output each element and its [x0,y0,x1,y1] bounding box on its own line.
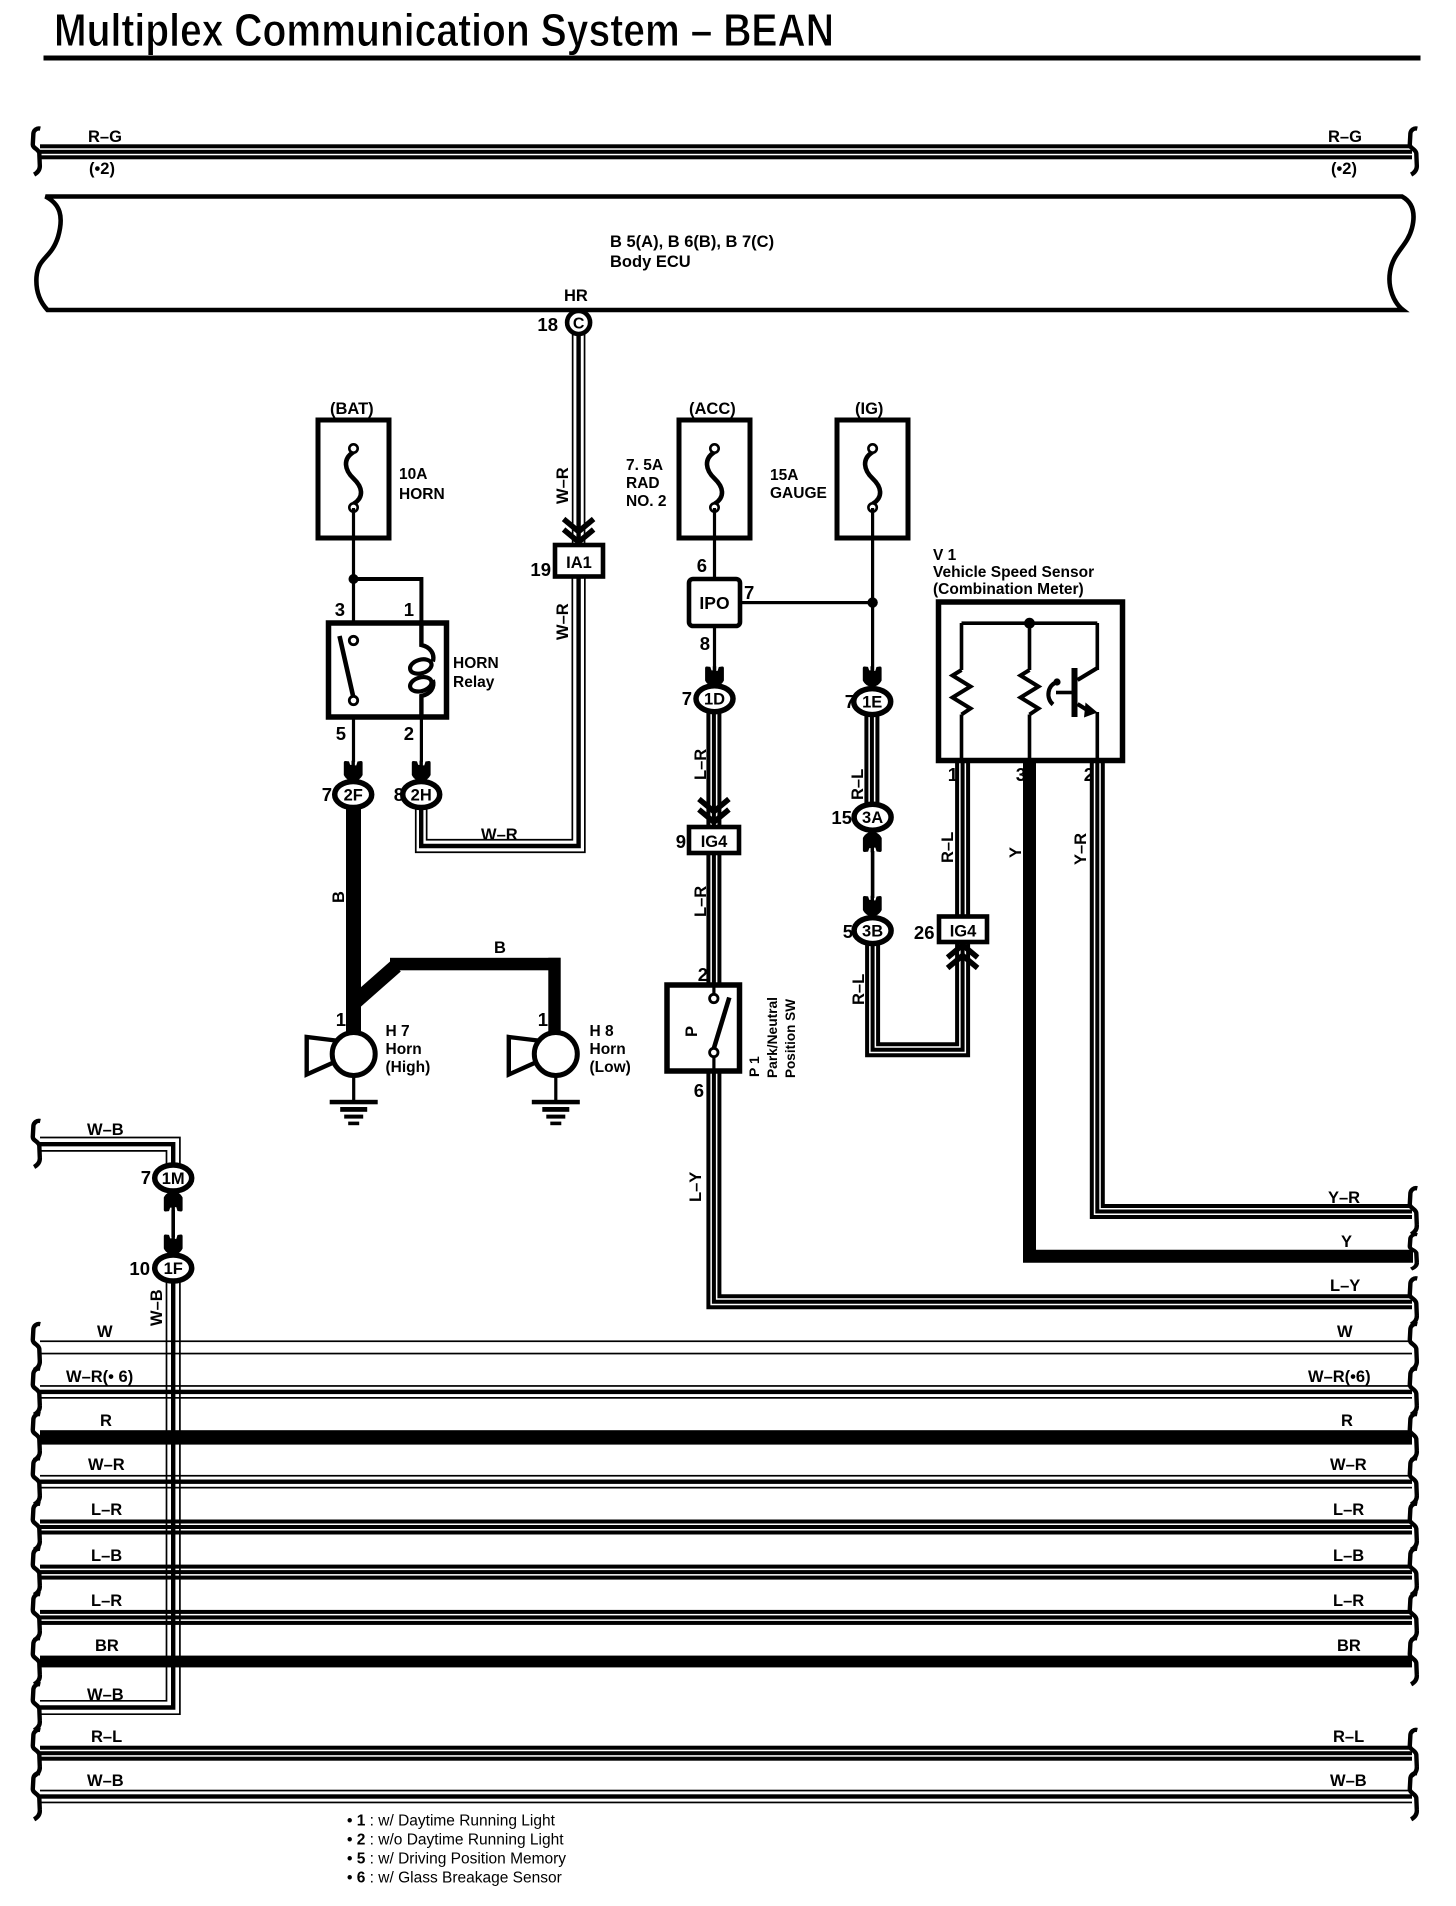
svg-text:R–L: R–L [850,974,868,1005]
wire relay pin 2 down [420,717,423,762]
svg-text:B: B [494,939,506,957]
svg-text:Horn: Horn [590,1041,626,1058]
svg-text:7: 7 [682,688,692,709]
svg-text:L–R: L–R [1333,1592,1364,1610]
wire W-R bus [40,1475,1412,1489]
wire internal top bus (V1) [962,621,1098,625]
svg-text:B: B [330,891,348,903]
svg-text:1F: 1F [164,1260,183,1278]
svg-text:6: 6 [694,1080,704,1101]
svg-text:5: 5 [336,723,346,744]
svg-text:W–B: W–B [87,1121,124,1139]
wire IPO down to 1D [713,626,716,672]
wire L-B bus [40,1565,1412,1580]
svg-text:7: 7 [322,784,332,805]
svg-text:26: 26 [914,922,935,943]
arrow up into 3A [863,832,882,853]
Body ECU band [36,197,1413,311]
wire R-L from 3B down, right, and up to V1 pin 1 [867,760,968,1055]
svg-text:3A: 3A [862,809,883,827]
svg-text:W–B: W–B [87,1772,124,1790]
wire break symbol right (R) [1410,1414,1418,1460]
svg-text:10A: 10A [399,466,427,483]
svg-text:Y–R: Y–R [1328,1189,1360,1207]
svg-text:1: 1 [404,599,414,620]
svg-text:HR: HR [564,287,588,305]
wire H8 to ground [554,1076,557,1101]
fuse 7.5A RAD NO.2 (ACC) [679,420,750,538]
svg-text:1: 1 [538,1009,548,1030]
wire W bus [40,1340,1412,1342]
wire W-B from edge to connector 1M [40,1138,180,1166]
wire Y-R from V1 pin 2 down and right to edge [1092,760,1412,1217]
svg-text:2: 2 [404,723,414,744]
wire break symbol left (L-R) [33,1504,41,1550]
fuse 15A GAUGE (IG) [837,420,908,538]
ground (H8) [532,1100,580,1125]
wire B branch down to Horn Low [548,958,560,1032]
svg-text:1E: 1E [862,694,882,712]
svg-text:1: 1 [948,764,958,785]
wire L-R from IG4 to P1 pin 2 [706,851,721,985]
svg-text:BR: BR [95,1637,119,1655]
svg-text:P 1: P 1 [746,1056,762,1077]
wire break symbol left (R-G) [33,128,41,174]
svg-text:H 8: H 8 [590,1023,615,1040]
svg-text:7: 7 [141,1167,151,1188]
wire break symbol right (BR) [1410,1638,1418,1684]
svg-text:1: 1 [336,1009,346,1030]
wire L-R bus [40,1610,1412,1625]
wire break symbol right (R-L) [1410,1730,1418,1776]
svg-text:Multiplex Communication System: Multiplex Communication System – BEAN [54,4,834,56]
switch blade (P1) [714,998,730,1049]
switch contact circle top (P1) [710,994,718,1002]
svg-text:Position SW: Position SW [782,998,798,1078]
svg-text:W–R: W–R [88,1456,125,1474]
svg-text:R–L: R–L [1333,1728,1364,1746]
wire R-G bus (top) [40,144,1412,159]
svg-text:7: 7 [744,582,754,603]
svg-text:(IG): (IG) [855,400,883,418]
wire W-B from 1F down to W-B bus [40,1281,180,1714]
wire break symbol right (W-R) [1410,1458,1418,1504]
arrow down into 3B [863,896,882,917]
svg-text:L–Y: L–Y [1330,1277,1360,1295]
wire L-R bus [40,1520,1412,1535]
svg-text:W–R: W–R [1330,1456,1367,1474]
svg-text:Y–R: Y–R [1072,833,1090,865]
svg-text:2F: 2F [344,787,363,805]
svg-text:L–R: L–R [91,1592,122,1610]
wire break symbol left (R-L) [33,1730,41,1776]
wire junction to relay pin 3 [352,579,355,623]
svg-text:L–R: L–R [91,1501,122,1519]
wire stub out of switch [712,1056,715,1071]
svg-text:Relay: Relay [453,674,495,691]
wire junction right and down to relay pin 1 [354,579,422,623]
svg-text:L–B: L–B [91,1547,122,1565]
svg-text:• 6 : w/ Glass Breakage Sensor: • 6 : w/ Glass Breakage Sensor [347,1870,562,1887]
svg-text:R–G: R–G [1328,128,1362,146]
wire break symbol right (R-G) [1410,128,1418,174]
horn H7 Horn (High) [307,1033,376,1076]
svg-text:NO. 2: NO. 2 [626,493,666,510]
svg-text:Park/Neutral: Park/Neutral [764,997,780,1078]
svg-text:(BAT): (BAT) [330,400,374,418]
svg-text:P: P [683,1026,701,1037]
wire Y (thick) from V1 pin 3 down and right to edge [1030,760,1414,1256]
relay box HORN Relay [329,623,447,717]
wire break symbol left (R) [33,1414,41,1460]
wire break symbol left (W-B bus) [33,1684,41,1730]
svg-text:W–R(• 6): W–R(• 6) [66,1368,133,1386]
svg-text:C: C [573,316,585,333]
svg-text:Horn: Horn [386,1041,422,1058]
wire break symbol left (L-R) [33,1594,41,1640]
fuse 10A HORN (BAT) [318,420,389,538]
wire W-R(dot6) bus [40,1385,1412,1399]
svg-text:L–R: L–R [692,886,710,917]
svg-text:8: 8 [700,633,710,654]
svg-text:Vehicle Speed Sensor: Vehicle Speed Sensor [933,564,1094,581]
wire break symbol left (W-B top) [33,1121,41,1167]
wire B (thick) from 2F down to Horn High [346,807,361,1033]
svg-text:R–L: R–L [91,1728,122,1746]
wire break symbol left (W-B bottom) [33,1773,41,1819]
svg-text:(Low): (Low) [590,1059,631,1076]
ground (H7) [330,1100,378,1125]
svg-text:2H: 2H [411,787,432,805]
svg-text:Y: Y [1341,1233,1352,1251]
svg-text:B 5(A), B 6(B), B 7(C): B 5(A), B 6(B), B 7(C) [610,233,774,251]
svg-text:10: 10 [129,1258,150,1279]
switch box P1 Park/Neutral Position SW [667,985,740,1071]
arrow into connector 2F [344,761,363,782]
svg-text:1D: 1D [704,691,725,709]
svg-text:15A: 15A [770,467,798,484]
svg-text:• 5 : w/ Driving Position Memo: • 5 : w/ Driving Position Memory [347,1851,566,1868]
wire break symbol right (Y-R) [1410,1188,1418,1234]
svg-text:(High): (High) [386,1059,431,1076]
wire break symbol left (W-R) [33,1458,41,1504]
svg-text:7. 5A: 7. 5A [626,457,663,474]
relay switch contact circle (top) [349,636,357,644]
wire break symbol left (L-B) [33,1549,41,1595]
svg-text:• 2 : w/o Daytime Running Ligh: • 2 : w/o Daytime Running Light [347,1832,564,1849]
svg-text:R: R [100,1412,112,1430]
resistor R left (V1) [960,623,964,670]
wire break symbol right (Y) [1410,1234,1418,1269]
svg-text:HORN: HORN [453,655,499,672]
junction box IPO [689,579,740,626]
wire W-R from Body ECU pin 18C down to IA1 [572,330,586,547]
svg-text:L–Y: L–Y [687,1172,705,1202]
svg-text:IG4: IG4 [701,833,728,851]
arrow down into 1F [164,1234,183,1255]
wire break symbol left (W) [33,1324,41,1370]
svg-text:3: 3 [335,599,345,620]
flow chevron into IG4 (9) [699,799,729,822]
svg-text:Y: Y [1007,847,1025,858]
wire L-R from 1D to IG4 [706,712,721,829]
relay switch contact circle (bottom) [349,696,357,704]
svg-text:W–B: W–B [1330,1772,1367,1790]
svg-text:L–R: L–R [692,749,710,780]
wire 1M to 1F [171,1210,175,1237]
svg-text:R–G: R–G [88,128,122,146]
svg-text:1M: 1M [162,1170,185,1188]
wire R-L from 1E to 3A [864,715,879,804]
junction dot above relay [349,574,359,584]
arrow into connector 2H [412,761,431,782]
wire W-R from IA1 down, left and up to connector 2H [416,576,585,852]
wire B branch horizontal [390,958,561,971]
wire break symbol left (BR) [33,1638,41,1684]
resistor R middle (V1) [1028,623,1032,670]
flow chevron into IA1 [564,519,594,542]
wire BR bus (thick) [40,1656,1412,1668]
svg-text:(•2): (•2) [1331,160,1357,178]
wire IPO pin 7 to IG feed [740,601,873,604]
svg-text:IA1: IA1 [566,554,592,572]
relay switch blade [340,636,354,697]
arrow into connector 1E [863,666,882,687]
wire stub into switch [712,985,715,995]
svg-text:• 1 : w/ Daytime Running Light: • 1 : w/ Daytime Running Light [347,1813,556,1830]
wire 3A to 3B [871,851,875,898]
transistor Q (V1) [1096,623,1100,670]
svg-text:RAD: RAD [626,475,660,492]
wire break symbol right (W) [1410,1324,1418,1370]
svg-text:HORN: HORN [399,486,445,503]
wire break symbol right (L-B) [1410,1549,1418,1595]
svg-text:W: W [97,1323,113,1341]
wire relay pin 5 down [352,717,355,762]
svg-text:3B: 3B [862,923,883,941]
svg-text:IG4: IG4 [950,923,977,941]
title underline [44,56,1421,61]
horn H8 Horn (Low) [509,1033,578,1076]
svg-text:18: 18 [537,314,558,335]
wire break symbol right (L-R) [1410,1504,1418,1550]
svg-text:(Combination Meter): (Combination Meter) [933,581,1084,598]
svg-text:V 1: V 1 [933,547,957,564]
svg-text:2: 2 [698,964,708,985]
wire W-B bus (bottom) [40,1790,1412,1804]
svg-text:L–B: L–B [1333,1547,1364,1565]
wire IG fuse down to 1E [871,508,874,672]
svg-text:R: R [1341,1412,1353,1430]
svg-text:15: 15 [831,807,852,828]
sensor box V1 [939,602,1123,761]
svg-text:W–R: W–R [554,603,572,640]
wire H7 to ground [352,1076,355,1101]
relay coil [421,623,433,662]
wire fuse to relay junction [352,508,355,580]
wire break symbol right (W-R dot6) [1410,1369,1418,1415]
svg-text:(ACC): (ACC) [689,400,736,418]
wire break symbol right (W-B bottom) [1410,1773,1418,1819]
svg-text:W: W [1337,1323,1353,1341]
wire break symbol left (W-R dot6) [33,1369,41,1415]
wire R bus (thick) [40,1430,1412,1444]
svg-text:W–B: W–B [87,1686,124,1704]
svg-text:(•2): (•2) [89,160,115,178]
svg-text:W–R: W–R [481,826,518,844]
junction dot (V1 top) [1024,618,1035,629]
arrow up into 1M [164,1191,183,1212]
svg-text:W–R(•6): W–R(•6) [1308,1368,1371,1386]
wire ACC fuse down to IPO [713,508,716,579]
svg-text:9: 9 [676,831,686,852]
svg-text:6: 6 [697,555,707,576]
flow chevron up into IG4 (26) [948,945,978,968]
svg-text:BR: BR [1337,1637,1361,1655]
wire break symbol right (L-Y) [1410,1278,1418,1324]
wire R-L bus [40,1746,1412,1761]
svg-text:W–R: W–R [554,467,572,504]
arrow into connector 1D [705,666,724,687]
junction dot (IPO feed joins IG wire) [867,597,877,607]
svg-text:IPO: IPO [699,593,729,613]
svg-text:H 7: H 7 [386,1023,410,1040]
switch contact circle bottom (P1) [710,1048,718,1056]
svg-text:19: 19 [530,559,551,580]
wire B branch diagonal [354,966,396,1003]
svg-text:L–R: L–R [1333,1501,1364,1519]
wire break symbol right (L-R) [1410,1594,1418,1640]
svg-text:R–L: R–L [939,832,957,863]
svg-text:Body ECU: Body ECU [610,253,691,271]
svg-text:R–L: R–L [849,769,867,800]
wire L-Y from P1 down and right to edge [708,1071,1412,1307]
svg-text:W–B: W–B [148,1289,166,1326]
svg-text:GAUGE: GAUGE [770,485,827,502]
